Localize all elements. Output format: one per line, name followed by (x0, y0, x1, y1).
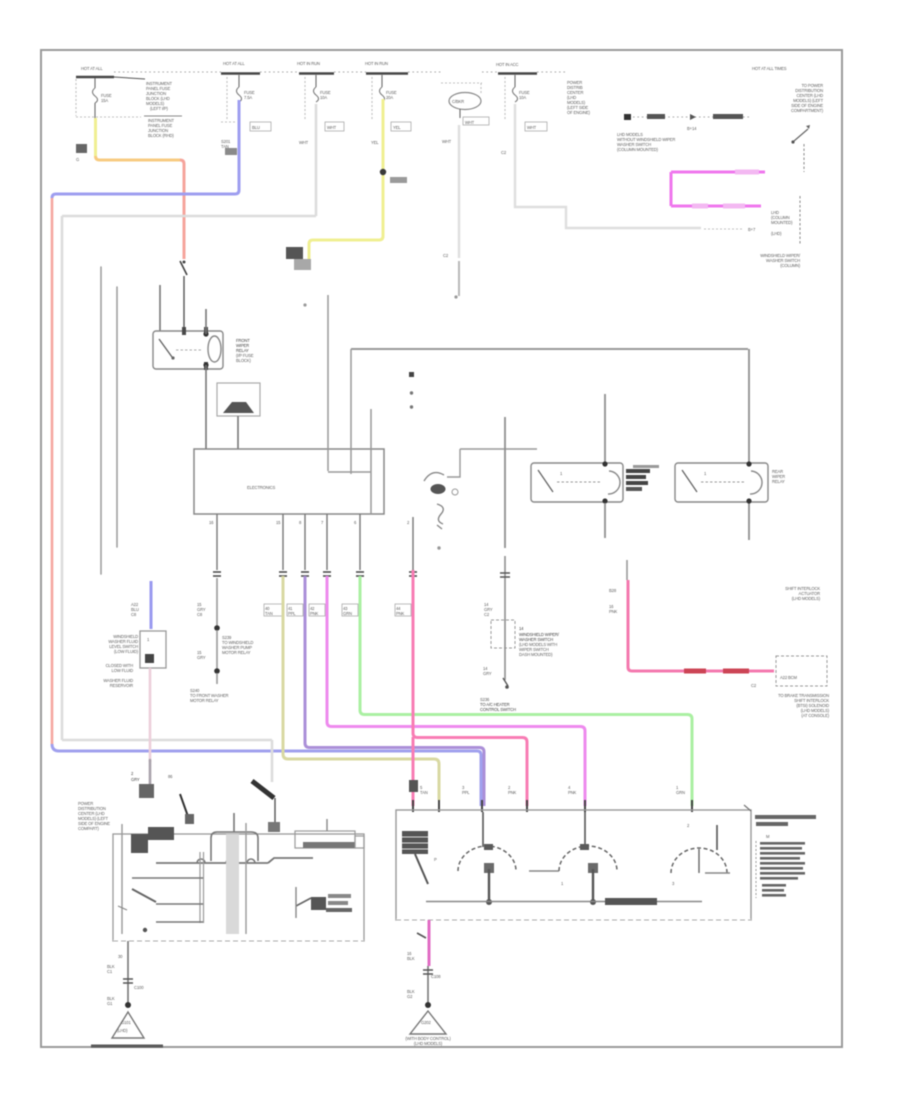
circuit breaker lead (459, 109, 461, 118)
washer pump motor wire gray (504, 556, 506, 620)
svg-text:B+14: B+14 (687, 126, 697, 131)
dashed drop line right lower (799, 196, 801, 245)
switch rail bottom (156, 921, 203, 923)
ground symbol left (112, 1012, 144, 1038)
wire magenta vertical (326, 576, 329, 722)
splice dot washer 2 (214, 668, 220, 674)
svg-text:WHT: WHT (465, 120, 475, 125)
relay coil block a (131, 834, 148, 853)
svg-text:C108: C108 (431, 974, 441, 979)
plug at right edge (355, 836, 364, 848)
fuse box F1 dashed bottom (76, 116, 141, 118)
tiny mark (454, 295, 457, 298)
wire gray W2 lower (458, 261, 460, 296)
fuse box F1 dashed side (75, 79, 77, 116)
wire salmon long left vertical (51, 198, 54, 744)
fluid switch gray wire end (149, 760, 152, 795)
svg-text:G: G (76, 157, 79, 162)
tick on magenta wire (417, 933, 426, 938)
washer fluid switch blue wire (150, 581, 153, 629)
relay 1 contact dots (602, 461, 607, 466)
winding 2 tab (592, 869, 594, 902)
relay 1 label dark (626, 469, 650, 473)
svg-text:15A: 15A (101, 98, 108, 103)
winding 1 brush contact (484, 844, 493, 850)
relay 2 dashed bar (701, 481, 745, 483)
tick near bottom (118, 906, 127, 910)
svg-text:C2: C2 (443, 253, 449, 258)
svg-text:10A: 10A (320, 95, 327, 100)
wire purple vertical (304, 576, 307, 743)
switch rail mid (156, 903, 203, 905)
wire to wiper relay (183, 276, 185, 331)
stub horizontal near switch (460, 448, 537, 450)
relay 2 cluster (311, 897, 326, 910)
wire orange segment (96, 156, 181, 160)
splice dot washer 1 (214, 625, 220, 631)
svg-text:WHT: WHT (299, 140, 309, 145)
svg-text:PNK: PNK (568, 790, 577, 795)
svg-text:20A: 20A (386, 95, 393, 100)
svg-text:WHT: WHT (327, 125, 337, 130)
relay box lower left (113, 834, 364, 941)
wire blue from F2 (238, 100, 241, 190)
svg-text:(LHD): (LHD) (117, 1028, 128, 1033)
inner left bus (121, 824, 123, 934)
inner vertical line a (327, 295, 329, 471)
relay box bottom dashed (113, 940, 364, 942)
relay contact dot bottom (203, 362, 208, 367)
svg-text:TAN: TAN (265, 611, 273, 616)
svg-text:WHT: WHT (442, 139, 452, 144)
wire purple horizontal (305, 743, 484, 806)
right big box top edge (351, 348, 748, 350)
motor brush blade (415, 854, 428, 884)
svg-text:B+7: B+7 (748, 227, 756, 232)
fuse box F2 dashed side (226, 77, 228, 120)
inner horizontal connector (328, 471, 371, 473)
washer relay connector box 1 (531, 463, 623, 502)
relay inner dashed bar (176, 349, 202, 351)
svg-text:PPL: PPL (288, 611, 296, 616)
svg-text:P: P (434, 857, 437, 862)
svg-text:(COLUMN MOUNTED): (COLUMN MOUNTED) (617, 147, 659, 152)
svg-text:YEL: YEL (393, 125, 401, 130)
tiny mark 2 (303, 303, 306, 306)
svg-text:PNK: PNK (310, 611, 319, 616)
bus step to right (268, 858, 313, 863)
fuse element box right (295, 831, 355, 848)
svg-text:PNK: PNK (508, 790, 517, 795)
svg-text:RESERVOIR: RESERVOIR (110, 683, 133, 688)
fuse group F1 bus bar (76, 76, 114, 79)
fuse F1 element (93, 88, 98, 103)
salmon wire end switch (180, 794, 190, 822)
junction block connector line (114, 77, 145, 79)
bus hop 1 (197, 859, 205, 863)
fuse F1 lower lead (94, 103, 96, 118)
svg-text:(LEFT I/P): (LEFT I/P) (150, 106, 168, 111)
relay bus bar (156, 862, 268, 864)
fluid wire end connector (139, 784, 154, 798)
svg-text:YEL: YEL (371, 140, 379, 145)
motor connector comb rows (760, 842, 805, 897)
wire white W1 bottom horizontal (62, 739, 272, 742)
svg-text:C8: C8 (131, 612, 137, 617)
motor ground bus (426, 901, 702, 903)
winding 1 tab (488, 869, 490, 902)
wire white W1 horizontal to left (62, 215, 316, 218)
switch wire lower (504, 648, 506, 680)
svg-text:GRY: GRY (131, 777, 140, 782)
dashed connector box on switch wire (491, 620, 515, 648)
squiggle arc (424, 473, 444, 481)
fluid switch contact (145, 654, 154, 663)
wire green vertical (359, 576, 362, 710)
svg-text:C2: C2 (501, 150, 507, 155)
long bypass line 2 (116, 287, 118, 547)
wire white W1 vertical from F3 (315, 104, 318, 216)
svg-text:(LHD MODELS): (LHD MODELS) (414, 1041, 443, 1046)
wire white W2 from CB (458, 125, 460, 258)
fuse F2 element (237, 87, 242, 102)
wiper motor winding arc 1 lead (482, 812, 484, 847)
wire tag YEL F4 (391, 122, 411, 131)
park switch wire vertical (604, 394, 606, 463)
svg-text:MOTOR RELAY: MOTOR RELAY (190, 698, 219, 703)
svg-text:COMPART): COMPART) (78, 826, 100, 831)
splice S204 dot on yellow wire (380, 169, 386, 175)
wiper control module box (194, 449, 384, 514)
splice S204 label (390, 177, 407, 183)
wiper motor winding arc 3 (671, 848, 727, 873)
wire white W3 from F5 (515, 104, 701, 228)
svg-text:BLOCK (RHD): BLOCK (RHD) (148, 133, 174, 138)
winding 3 center line (698, 849, 700, 873)
wire yellow horizontal to washer switch (309, 236, 383, 262)
svg-text:HOT AT ALL: HOT AT ALL (223, 61, 245, 66)
fuse group F5 bus bar (498, 72, 537, 75)
relay switch blade (159, 339, 172, 357)
wire white W1 drop to relay box (271, 740, 274, 782)
relay pin entry marks (182, 327, 186, 335)
winding 2 brush contact (580, 844, 589, 850)
washer wire 2 (216, 630, 218, 670)
svg-text:A22 BCM: A22 BCM (780, 675, 798, 680)
motor label text (755, 815, 816, 819)
fuse group F3 bus bar (299, 72, 334, 75)
circuit breaker dashed box top (441, 82, 482, 84)
diode box (217, 383, 260, 416)
svg-text:C2: C2 (484, 612, 490, 617)
inner vertical pair (199, 852, 201, 923)
switch blade lower (132, 889, 156, 902)
svg-text:(COLUMN): (COLUMN) (780, 263, 800, 268)
svg-text:C1: C1 (107, 969, 113, 974)
svg-text:GRN: GRN (343, 611, 352, 616)
svg-text:HOT IN RUN: HOT IN RUN (297, 61, 320, 66)
relay 1 coil arc (608, 471, 620, 494)
relay 1 dashed bar (557, 481, 600, 483)
front wiper relay box (153, 331, 223, 369)
relay 2 coil arc (750, 471, 762, 494)
svg-text:TAN: TAN (420, 790, 428, 795)
dashed drop line right (803, 144, 805, 172)
wire magenta U left vertical (670, 172, 673, 206)
fuse F4 element (380, 87, 385, 102)
ground symbol right (410, 1011, 446, 1034)
stub line into wiper relay (159, 285, 161, 331)
fuse F5 lead (514, 75, 516, 87)
switch wire end mark (503, 678, 508, 686)
dashed continuation of W3 (704, 228, 744, 230)
front wiper motor box (396, 810, 751, 920)
svg-text:ELECTRONICS: ELECTRONICS (247, 485, 275, 490)
arrow marker on dotted line (690, 114, 696, 120)
svg-text:GRN: GRN (676, 790, 685, 795)
ground wire from relay box (127, 941, 129, 1003)
label on magenta lower (723, 204, 745, 209)
fuse element stub (326, 819, 328, 831)
connector blob pink (409, 780, 418, 792)
wire tag under CB (463, 117, 489, 125)
squiggle S curve (437, 504, 443, 524)
circuit breaker CB oval (449, 93, 481, 110)
junction block divider line (144, 115, 182, 117)
svg-text:GRY: GRY (483, 671, 492, 676)
motor box entry tick (744, 805, 751, 811)
label segment on dotted line 1 (647, 114, 665, 119)
wire magenta U lower run (671, 205, 761, 208)
wire white W1 long left vertical (61, 216, 64, 740)
wiper motor winding arc 1 (458, 846, 516, 871)
wire pink branch horizontal (413, 733, 527, 806)
fuse F2 lead (238, 75, 240, 87)
switch arrow top right (794, 129, 808, 141)
marker on blue wire (225, 148, 237, 155)
svg-text:WHT: WHT (527, 125, 537, 130)
dotted bus line between fuse groups (114, 71, 221, 73)
svg-text:G202: G202 (421, 1020, 431, 1025)
svg-text:10A: 10A (519, 95, 526, 100)
fuse box F5 dashed side (504, 77, 506, 120)
wiper motor winding arc 2 lead (584, 812, 586, 847)
magenta ground wire from motor box (428, 920, 431, 966)
wire magenta U upper run (671, 171, 765, 174)
wiper motor winding arc 2 (559, 846, 617, 871)
svg-text:PNK: PNK (396, 611, 405, 616)
wire salmon down from orange (180, 160, 184, 259)
wire from diode down (237, 416, 239, 449)
wire from relay to control box (205, 365, 207, 449)
svg-text:B28: B28 (609, 588, 617, 593)
wire pink vertical (412, 570, 415, 733)
wire tan vertical (282, 576, 285, 754)
wiper motor winding arc 3 lead (716, 825, 718, 850)
svg-text:CONTROL SWITCH: CONTROL SWITCH (480, 707, 516, 712)
fuse box F4 dashed side (371, 77, 373, 120)
connector marks on switch wire (500, 573, 510, 577)
relay 1 wire below (604, 503, 606, 538)
svg-text:(LHD): (LHD) (771, 231, 782, 236)
inner vertical c (245, 823, 247, 934)
wire yellow from F1 (94, 118, 97, 156)
step down to squiggle (447, 449, 460, 477)
wire magenta horizontal (327, 722, 585, 806)
motor box bottom dashed (396, 919, 751, 921)
svg-text:G2: G2 (407, 994, 413, 999)
wire yellow from F4 (382, 99, 385, 236)
wire red horizontal to interlock (628, 667, 774, 671)
switch contact on salmon wire (180, 261, 187, 275)
svg-text:RELAY: RELAY (772, 479, 785, 484)
stub between windings (529, 870, 559, 872)
fuse F3 lead (315, 75, 317, 87)
svg-text:MOUNTED): MOUNTED) (771, 220, 793, 225)
svg-text:BLOCK): BLOCK) (236, 358, 251, 363)
long bypass line 1 (100, 267, 102, 574)
relay pin stub above (205, 309, 207, 334)
svg-text:G1: G1 (107, 1001, 113, 1006)
washer fluid level switch box (140, 631, 166, 668)
wiper switch wire mid vertical (504, 417, 506, 548)
svg-text:LOW FLUID: LOW FLUID (112, 668, 134, 673)
wire green horizontal (360, 710, 692, 806)
squiggle tick (437, 525, 442, 529)
svg-text:BLK: BLK (407, 956, 415, 961)
connector marker G near F1 (76, 144, 87, 153)
squiggle blob (431, 484, 446, 494)
ground wire lower right (427, 966, 429, 1003)
label segment on dotted line 2 (713, 114, 743, 119)
relay contact dot top (203, 331, 208, 336)
svg-text:C/BKR: C/BKR (452, 99, 464, 104)
wire tan horizontal (283, 754, 439, 800)
jumper arch (211, 832, 258, 861)
right big box right edge lower (748, 503, 750, 540)
svg-text:COMPARTMENT): COMPARTMENT) (791, 108, 824, 113)
wire pink branch down (412, 737, 415, 780)
continuation dots (409, 372, 414, 377)
relay 1 blade (538, 470, 553, 492)
dot bottom left (143, 928, 147, 932)
relay 2 contact dots (746, 461, 751, 466)
switch rail top (132, 877, 203, 879)
svg-text:PNK: PNK (609, 609, 618, 614)
switch arrow on W1 end (252, 781, 274, 798)
motor brush pack (402, 831, 428, 854)
svg-text:OF ENGINE): OF ENGINE) (567, 110, 591, 115)
relay coil ellipse (208, 336, 221, 362)
connector half marks on stubs (213, 572, 417, 576)
washer relay connector box 2 (675, 463, 768, 502)
fuse F4 lead (381, 75, 383, 87)
connector band (226, 834, 239, 934)
svg-text:(AT CONSOLE): (AT CONSOLE) (801, 713, 829, 718)
svg-text:G101: G101 (121, 1020, 131, 1025)
svg-text:BLU: BLU (252, 125, 260, 130)
fuse box F2 dashed bottom (221, 121, 237, 123)
interlock dashed box (776, 656, 827, 686)
washer pump wire (216, 578, 218, 626)
fuse group F2 bus bar (221, 72, 260, 75)
fluid switch pink wire down (149, 668, 152, 762)
wire magenta red to interlock (627, 580, 630, 667)
fuse box F3 dashed side (304, 77, 306, 120)
svg-text:HOT IN RUN: HOT IN RUN (365, 61, 388, 66)
magenta stub top (626, 560, 628, 580)
squiggle dot (437, 546, 440, 549)
wire tag F5 (525, 122, 547, 131)
pin stub wires below module (216, 514, 218, 570)
fuse F5 element (513, 87, 518, 102)
svg-text:(LOW FLUID): (LOW FLUID) (114, 649, 139, 654)
wiper motor label on bus (605, 898, 657, 905)
svg-text:HOT IN ACC: HOT IN ACC (496, 62, 519, 67)
svg-text:PPL: PPL (462, 790, 470, 795)
squiggle small circle (452, 489, 458, 495)
svg-text:C2: C2 (751, 683, 757, 688)
label on magenta upper (735, 170, 759, 175)
wire tag BLU (250, 122, 271, 131)
right box left edge (350, 349, 352, 474)
dotted interconnect square marker (624, 114, 631, 120)
dotted interconnect line (633, 116, 750, 118)
svg-text:(LHD MODELS): (LHD MODELS) (792, 596, 821, 601)
svg-text:HOT AT ALL: HOT AT ALL (81, 66, 103, 71)
svg-text:7.5A: 7.5A (244, 95, 252, 100)
wire blue long horizontal bottom (52, 744, 481, 806)
svg-text:MOTOR RELAY: MOTOR RELAY (222, 650, 251, 655)
wire blue horizontal to left (52, 190, 239, 198)
fuse F3 element (314, 87, 319, 102)
svg-text:C100: C100 (134, 985, 144, 990)
relay coil block b (148, 827, 174, 840)
diode symbol fill (223, 402, 254, 413)
fuse F1 lead (94, 78, 96, 88)
ground splice dot (125, 1002, 131, 1008)
fuse group F4 bus bar (366, 72, 408, 75)
svg-text:DASH MOUNTED): DASH MOUNTED) (519, 652, 553, 657)
svg-text:GRY: GRY (197, 655, 206, 660)
RED labels on wire (684, 669, 706, 674)
inner vertical line b (370, 409, 372, 514)
winding 3 base stub (705, 872, 730, 874)
page number text on bottom border (91, 1045, 163, 1048)
svg-text:HOT AT ALL TIMES: HOT AT ALL TIMES (752, 66, 787, 71)
connector pin marks at motor box entry (413, 800, 692, 812)
svg-text:C8: C8 (197, 612, 203, 617)
connector at yellow wire end (286, 247, 303, 259)
ground splice dot right (425, 1002, 431, 1008)
right big box right edge upper (748, 349, 750, 462)
wire tag WHT F3 (325, 122, 344, 131)
relay 2 blade (682, 470, 697, 492)
jumper top stub (233, 813, 235, 832)
wire tags on colored wires (264, 604, 411, 616)
motor connector comb ticks (755, 841, 757, 898)
